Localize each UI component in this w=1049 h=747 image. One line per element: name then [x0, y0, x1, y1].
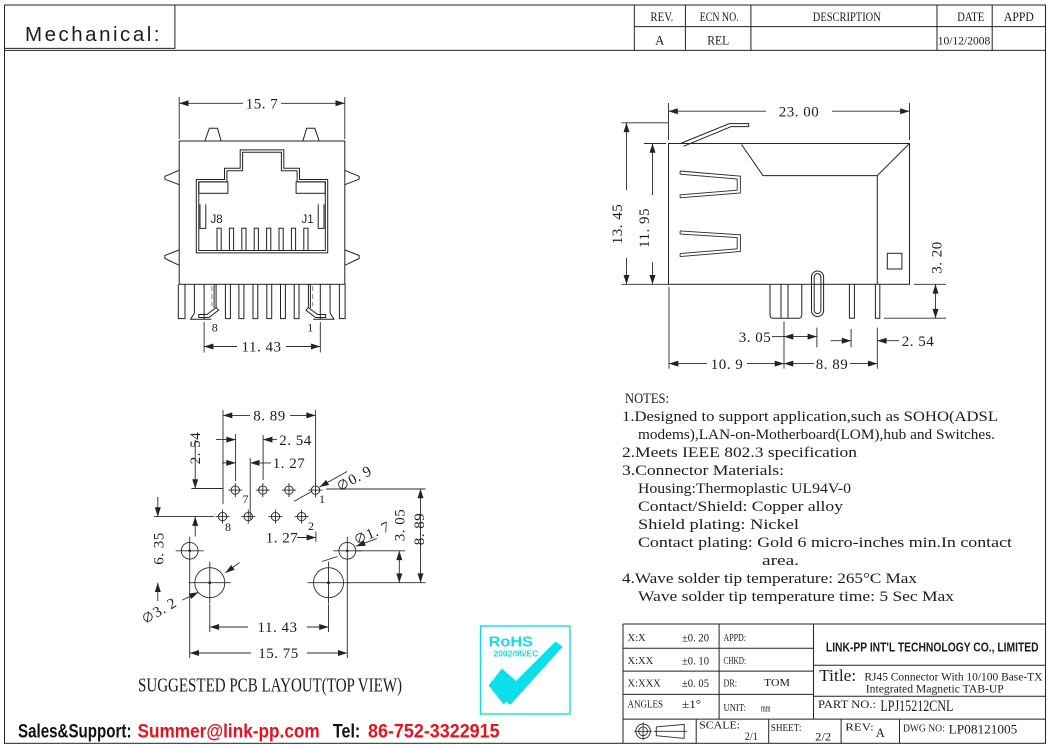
dim 23.00	[669, 110, 767, 112]
svg-text:2/2: 2/2	[815, 730, 831, 744]
svg-text:modems),LAN-on-Motherboard(LOM: modems),LAN-on-Motherboard(LOM),hub and …	[638, 427, 995, 443]
svg-text:2002/95/EC: 2002/95/EC	[493, 648, 538, 658]
latch arm	[681, 124, 749, 147]
svg-text:REV.: REV.	[650, 10, 673, 24]
dim 23.00 extension lines	[668, 103, 670, 140]
svg-text:SHEET:: SHEET:	[771, 722, 802, 734]
dim 3.05 right vertical	[356, 550, 405, 552]
svg-text:X:XXX: X:XXX	[628, 679, 662, 690]
small pin holes row1 (1,3,5,7)	[228, 483, 322, 497]
thin pin A	[849, 284, 854, 318]
dim 3.20	[914, 283, 946, 285]
svg-text:area.: area.	[762, 553, 799, 569]
svg-text:3. 05: 3. 05	[393, 509, 409, 542]
dim 15.75	[189, 566, 191, 658]
svg-text:2. 54: 2. 54	[902, 334, 935, 350]
dim 6.35 left vertical	[154, 516, 214, 518]
top mounting tabs	[205, 128, 221, 141]
dim 2.54	[831, 340, 851, 342]
svg-text:2. 54: 2. 54	[279, 433, 312, 449]
svg-text:PART NO.:: PART NO.:	[818, 699, 876, 711]
svg-text:Contact/Shield: Copper alloy: Contact/Shield: Copper alloy	[638, 499, 844, 515]
svg-text:3. 05: 3. 05	[739, 330, 772, 346]
svg-text:3. 20: 3. 20	[930, 241, 946, 274]
body outline	[669, 144, 910, 285]
connector body	[179, 141, 345, 284]
svg-text:±0. 20: ±0. 20	[682, 631, 709, 645]
1.7mm holes	[176, 537, 362, 566]
revision table	[634, 5, 1045, 50]
svg-text:23. 00: 23. 00	[779, 104, 820, 120]
extra leader at left mounting hole	[225, 563, 239, 573]
svg-text:1. 27: 1. 27	[273, 456, 306, 472]
EMI finger upper	[680, 171, 740, 198]
svg-text:Housing:Thermoplastic UL94V-0: Housing:Thermoplastic UL94V-0	[638, 481, 851, 497]
svg-text:ANGLES: ANGLES	[628, 699, 664, 710]
dia 3.2 leader and label	[182, 592, 198, 600]
dim 15.7	[179, 102, 243, 104]
thin pin B	[875, 284, 879, 318]
svg-text:8. 89: 8. 89	[816, 357, 849, 373]
svg-text:6. 35: 6. 35	[152, 532, 168, 565]
svg-text:Sales&Support:Summer@link-pp.c: Sales&Support:Summer@link-pp.comTel:86-7…	[18, 721, 500, 743]
plastic post block	[770, 284, 802, 318]
kinked contact loop pin	[812, 271, 824, 317]
dim 1.27 top	[249, 458, 251, 520]
svg-text:DWG NO:: DWG NO:	[903, 723, 945, 735]
svg-text:8. 89: 8. 89	[412, 513, 428, 546]
svg-text:±0. 05: ±0. 05	[682, 676, 709, 690]
dia 0.9 leader and label	[294, 472, 347, 502]
top band separator line	[5, 49, 1046, 51]
bottom dims extension lines	[668, 287, 670, 369]
pin8 channel with bent contact foot	[191, 284, 219, 319]
shield window square	[887, 253, 902, 269]
svg-text:2.Meets IEEE 802.3 specificati: 2.Meets IEEE 802.3 specification	[622, 445, 858, 461]
svg-text:8: 8	[212, 321, 218, 335]
dim 8.89	[784, 363, 814, 365]
svg-text:1.Designed to support applicat: 1.Designed to support application,such a…	[622, 409, 998, 425]
internal shield edge	[742, 144, 910, 176]
svg-text:±0. 10: ±0. 10	[682, 654, 709, 668]
Mechanical title box	[5, 5, 175, 48]
revision table header texts	[650, 10, 1034, 48]
svg-text:10. 9: 10. 9	[711, 357, 744, 373]
dim 15.7 extension lines	[178, 97, 180, 139]
svg-text:LINK-PP INT'L TECHNOLOGY CO.,: LINK-PP INT'L TECHNOLOGY CO., LIMITED	[826, 641, 1039, 655]
svg-text:APPD:: APPD:	[724, 633, 747, 644]
svg-text:13. 45: 13. 45	[610, 204, 626, 245]
svg-text:A: A	[876, 726, 885, 740]
svg-text:X:X: X:X	[628, 633, 647, 644]
svg-text:±1°: ±1°	[682, 697, 701, 711]
svg-text:Mechanical:: Mechanical:	[25, 23, 160, 46]
3.2mm mounting holes	[189, 562, 350, 604]
dim 2.54 left vertical	[191, 488, 223, 490]
svg-text:Wave solder tip temperature ti: Wave solder tip temperature time: 5 Sec …	[638, 589, 955, 605]
svg-text:TOM: TOM	[764, 678, 791, 689]
right ledge	[296, 182, 325, 193]
dim 1.27 bottom	[315, 532, 317, 542]
small pin holes row2 (2,4,6,8)	[216, 510, 309, 524]
dim 11.43	[203, 322, 205, 353]
dim 2.54 top	[235, 434, 237, 481]
svg-text:ECN NO.: ECN NO.	[700, 10, 739, 24]
checkmark	[489, 669, 518, 705]
svg-text:8: 8	[225, 520, 231, 534]
svg-text:2. 54: 2. 54	[188, 432, 204, 465]
right pocket channel	[318, 204, 324, 228]
svg-text:7: 7	[243, 492, 249, 506]
dim 11.43	[209, 605, 211, 633]
svg-text:DESCRIPTION: DESCRIPTION	[813, 10, 881, 24]
svg-text:Integrated Magnetic TAB-UP: Integrated Magnetic TAB-UP	[866, 682, 1004, 696]
pin1 channel with bent contact foot	[306, 284, 334, 319]
svg-text:DR:: DR:	[724, 679, 738, 690]
svg-text:15. 75: 15. 75	[258, 646, 299, 662]
svg-text:2/1: 2/1	[745, 729, 758, 743]
dim 8.89 top	[222, 410, 224, 504]
svg-text:APPD: APPD	[1004, 10, 1034, 24]
svg-text:SUGGESTED PCB LAYOUT(TOP VIEW): SUGGESTED PCB LAYOUT(TOP VIEW)	[138, 675, 402, 697]
EMI finger lower	[680, 231, 740, 257]
svg-text:UNIT:: UNIT:	[724, 703, 747, 714]
RJ45 opening outer contour	[196, 150, 327, 253]
svg-text:DATE: DATE	[957, 10, 984, 24]
svg-text:11. 95: 11. 95	[637, 208, 653, 248]
svg-text:15. 7: 15. 7	[246, 97, 279, 113]
svg-text:J8: J8	[211, 214, 223, 226]
projection symbol	[634, 722, 687, 740]
svg-text:REV:: REV:	[845, 722, 873, 734]
svg-text:11. 43: 11. 43	[242, 340, 282, 356]
8 contact slots	[217, 228, 308, 250]
svg-text:REL: REL	[707, 34, 729, 48]
left ledge	[199, 182, 228, 193]
svg-text:3.Connector Materials:: 3.Connector Materials:	[622, 463, 784, 479]
side tabs	[165, 170, 179, 184]
svg-text:NOTES:: NOTES:	[625, 391, 669, 407]
dim 10.9	[669, 363, 707, 365]
dim 13.45	[622, 122, 669, 124]
svg-text:CHKD:: CHKD:	[724, 656, 747, 667]
svg-text:1: 1	[319, 492, 325, 506]
svg-text:1. 27: 1. 27	[266, 531, 299, 547]
left pocket channel	[200, 204, 206, 228]
svg-text:LPJ15212CNL: LPJ15212CNL	[880, 698, 953, 715]
svg-text:Shield plating: Nickel: Shield plating: Nickel	[638, 517, 799, 533]
svg-text:J1: J1	[302, 214, 314, 226]
svg-text:8. 89: 8. 89	[253, 409, 286, 425]
svg-text:10/12/2008: 10/12/2008	[938, 34, 990, 48]
svg-text:A: A	[655, 34, 664, 48]
svg-text:LP08121005: LP08121005	[949, 721, 1018, 736]
svg-text:1: 1	[307, 321, 313, 335]
svg-text:2: 2	[308, 519, 314, 533]
shield legs and contact legs	[178, 284, 345, 318]
RJ45 opening inner contour	[199, 152, 325, 250]
svg-text:X:XX: X:XX	[628, 656, 654, 667]
svg-text:mm: mm	[761, 703, 771, 714]
dim 8.89 right vertical	[326, 488, 425, 490]
svg-text:SCALE:: SCALE:	[699, 720, 740, 732]
dim 11.95	[644, 143, 666, 145]
svg-text:Title:: Title:	[819, 666, 856, 685]
svg-text:4.Wave solder tip temperature:: 4.Wave solder tip temperature: 265°C Max	[622, 571, 918, 587]
svg-text:Contact plating: Gold 6 micro-: Contact plating: Gold 6 micro-inches min…	[638, 535, 1013, 551]
dia 1.7 leader and label	[322, 539, 377, 562]
svg-text:11. 43: 11. 43	[258, 620, 298, 636]
